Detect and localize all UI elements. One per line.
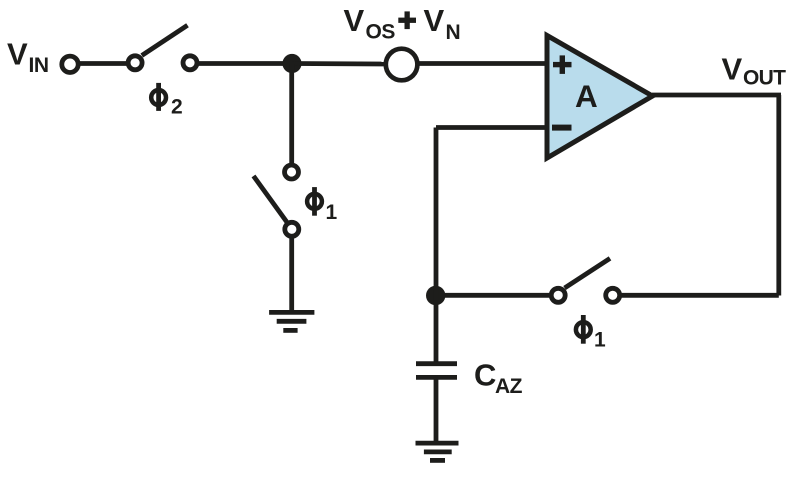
wire feedback horizontal to minus input (436, 125, 547, 130)
label phi1 (bottom right) (576, 315, 606, 352)
node bottom junction (426, 286, 445, 305)
wire from V_IN terminal to switch phi2 (78, 61, 128, 66)
wire from switch phi2 to top junction (197, 61, 285, 66)
wire bottom right horizontal (621, 293, 779, 298)
wire op-amp output (652, 93, 781, 98)
op-amp minus input marker (552, 125, 572, 131)
wire switch to bottom node (436, 293, 551, 298)
wire junction to noise source (292, 61, 386, 66)
svg-text:OUT: OUT (743, 67, 786, 90)
switch phi1 right contact (bottom right) (606, 288, 620, 302)
svg-text:A: A (575, 78, 598, 114)
switch phi1 bottom contact (left branch) (285, 222, 299, 236)
terminal circle V_IN (62, 56, 78, 72)
label C_AZ (474, 358, 523, 398)
switch phi2 pivot contact (128, 56, 142, 70)
svg-text:IN: IN (29, 54, 49, 77)
ground (right, below C_AZ) (416, 443, 459, 460)
switch phi1 lever (left branch) (254, 176, 287, 222)
label V_OUT (722, 51, 787, 89)
svg-text:N: N (446, 21, 461, 44)
switch phi1 top contact (left branch) (285, 165, 299, 179)
svg-text:V: V (344, 3, 365, 38)
svg-text:2: 2 (171, 96, 183, 119)
svg-text:V: V (722, 51, 743, 86)
switch phi1 lever (bottom right) (565, 258, 610, 288)
wire switch phi1 (left) to ground (289, 236, 294, 313)
wire noise source to op-amp + input (417, 61, 547, 66)
ground (left) (269, 312, 314, 330)
capacitor C_AZ bottom plate (416, 375, 457, 380)
node top junction (282, 54, 301, 73)
label V_IN (7, 36, 49, 77)
switch phi1 left contact (bottom right) (551, 288, 565, 302)
wire capacitor to ground (434, 377, 439, 443)
svg-text:V: V (7, 36, 28, 71)
svg-text:OS: OS (366, 21, 396, 44)
wire right vertical (776, 95, 781, 296)
wire top junction down to switch phi1 (left) (289, 64, 294, 166)
switch phi2 right contact (183, 56, 197, 70)
op-amp plus input marker (553, 55, 572, 74)
wire feedback vertical (434, 128, 439, 296)
svg-text:1: 1 (326, 201, 338, 224)
label phi2 (151, 83, 182, 119)
label V_OS + V_N (344, 3, 461, 44)
svg-text:V: V (424, 3, 445, 38)
wire node to capacitor (434, 296, 439, 363)
switch phi2 lever (142, 25, 188, 55)
svg-text:AZ: AZ (495, 375, 523, 398)
svg-text:C: C (474, 358, 496, 393)
op-amp U1 body A (547, 36, 653, 159)
label phi1 (left branch) (307, 187, 337, 224)
noise source V_OS + V_N circle (386, 49, 418, 81)
capacitor C_AZ top plate (416, 361, 457, 366)
svg-text:1: 1 (594, 329, 606, 352)
